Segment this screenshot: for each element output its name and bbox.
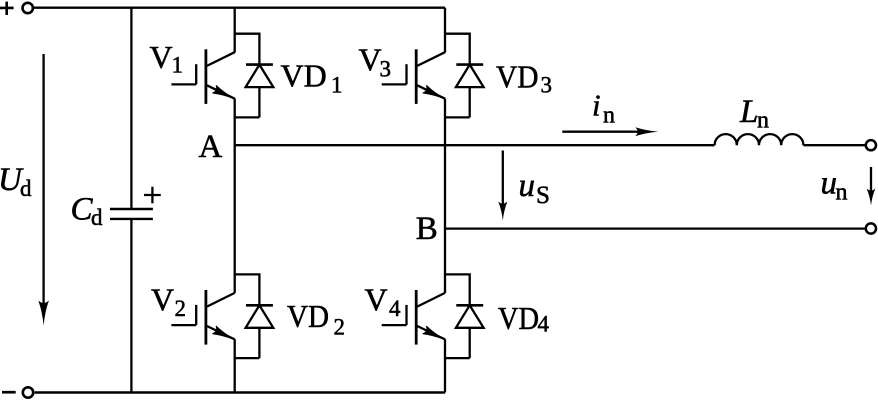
svg-text:n: n — [836, 180, 848, 206]
label V4 — [365, 282, 402, 321]
wire: leg1 mid (emitter V1 to collector V2, node A) — [234, 99, 236, 294]
svg-text:i: i — [592, 88, 601, 123]
label V2 — [151, 282, 186, 321]
svg-text:1: 1 — [331, 72, 343, 97]
label u_n — [821, 166, 848, 206]
diode VD3 — [445, 34, 484, 118]
svg-text:n: n — [603, 102, 615, 128]
svg-text:V: V — [151, 282, 174, 318]
svg-text:1: 1 — [172, 53, 184, 78]
wire: leg2 mid (emitter V3 to collector V4, node B) — [444, 99, 446, 294]
diode VD4 — [445, 274, 484, 358]
svg-text:B: B — [416, 211, 438, 247]
node B wire to output — [445, 227, 865, 229]
svg-text:d: d — [20, 176, 32, 201]
terminal circle right-bottom — [866, 223, 876, 233]
label V1 — [150, 39, 184, 78]
svg-text:VD: VD — [496, 59, 539, 95]
wire: capacitor branch lower — [130, 219, 132, 393]
minus terminal label (-) bottom-left — [2, 391, 16, 394]
label VD3 — [496, 59, 552, 98]
svg-text:VD: VD — [498, 300, 539, 336]
svg-text:V: V — [150, 39, 173, 75]
transistor V2 (IGBT) — [171, 290, 234, 393]
svg-text:VD: VD — [281, 58, 327, 94]
label Ud — [0, 162, 32, 201]
transistor V3 (IGBT) — [382, 8, 445, 104]
terminal circle bottom-left — [23, 387, 33, 397]
terminal circle right-top — [866, 140, 876, 150]
wire: top DC rail — [34, 7, 445, 9]
label i_n — [592, 88, 615, 129]
wire: inductor to output terminal — [803, 144, 865, 146]
wire: capacitor branch upper — [130, 8, 132, 209]
label V3 — [359, 42, 392, 82]
svg-text:4: 4 — [538, 312, 550, 337]
svg-text:V: V — [365, 282, 388, 318]
arrow: voltage u_S — [498, 151, 507, 221]
diode VD2 — [235, 274, 274, 358]
label VD2 — [287, 298, 345, 339]
label Cd — [71, 192, 104, 231]
svg-text:A: A — [199, 129, 223, 165]
label VD1 — [281, 58, 343, 98]
label L_n — [739, 94, 769, 133]
svg-text:2: 2 — [175, 296, 187, 321]
label VD4 — [498, 300, 550, 337]
svg-text:3: 3 — [541, 72, 553, 97]
transistor V4 (IGBT) — [382, 290, 445, 393]
svg-text:L: L — [739, 94, 758, 130]
arrow: voltage u_n — [867, 167, 876, 206]
node A wire to output — [235, 144, 715, 146]
svg-text:u: u — [519, 168, 536, 204]
svg-text:V: V — [359, 42, 382, 78]
capacitor polarity plus sign — [144, 187, 161, 203]
svg-text:4: 4 — [389, 296, 401, 321]
inductor Ln — [715, 134, 804, 145]
wire: bottom DC rail — [35, 391, 445, 394]
svg-text:S: S — [536, 182, 550, 209]
arrow: Ud voltage direction — [38, 54, 49, 326]
terminal circle top-left — [23, 3, 33, 13]
transistor V1 (IGBT) — [171, 8, 234, 104]
plus terminal label (+) top-left — [0, 2, 14, 15]
svg-text:3: 3 — [380, 56, 392, 81]
svg-text:2: 2 — [334, 315, 346, 340]
label u_S — [519, 168, 550, 209]
svg-text:VD: VD — [287, 298, 329, 334]
svg-text:d: d — [91, 205, 103, 230]
arrow: output current i_n — [562, 127, 658, 136]
diode VD1 — [235, 34, 274, 118]
svg-text:n: n — [757, 107, 769, 133]
capacitor Cd plates — [110, 209, 153, 219]
